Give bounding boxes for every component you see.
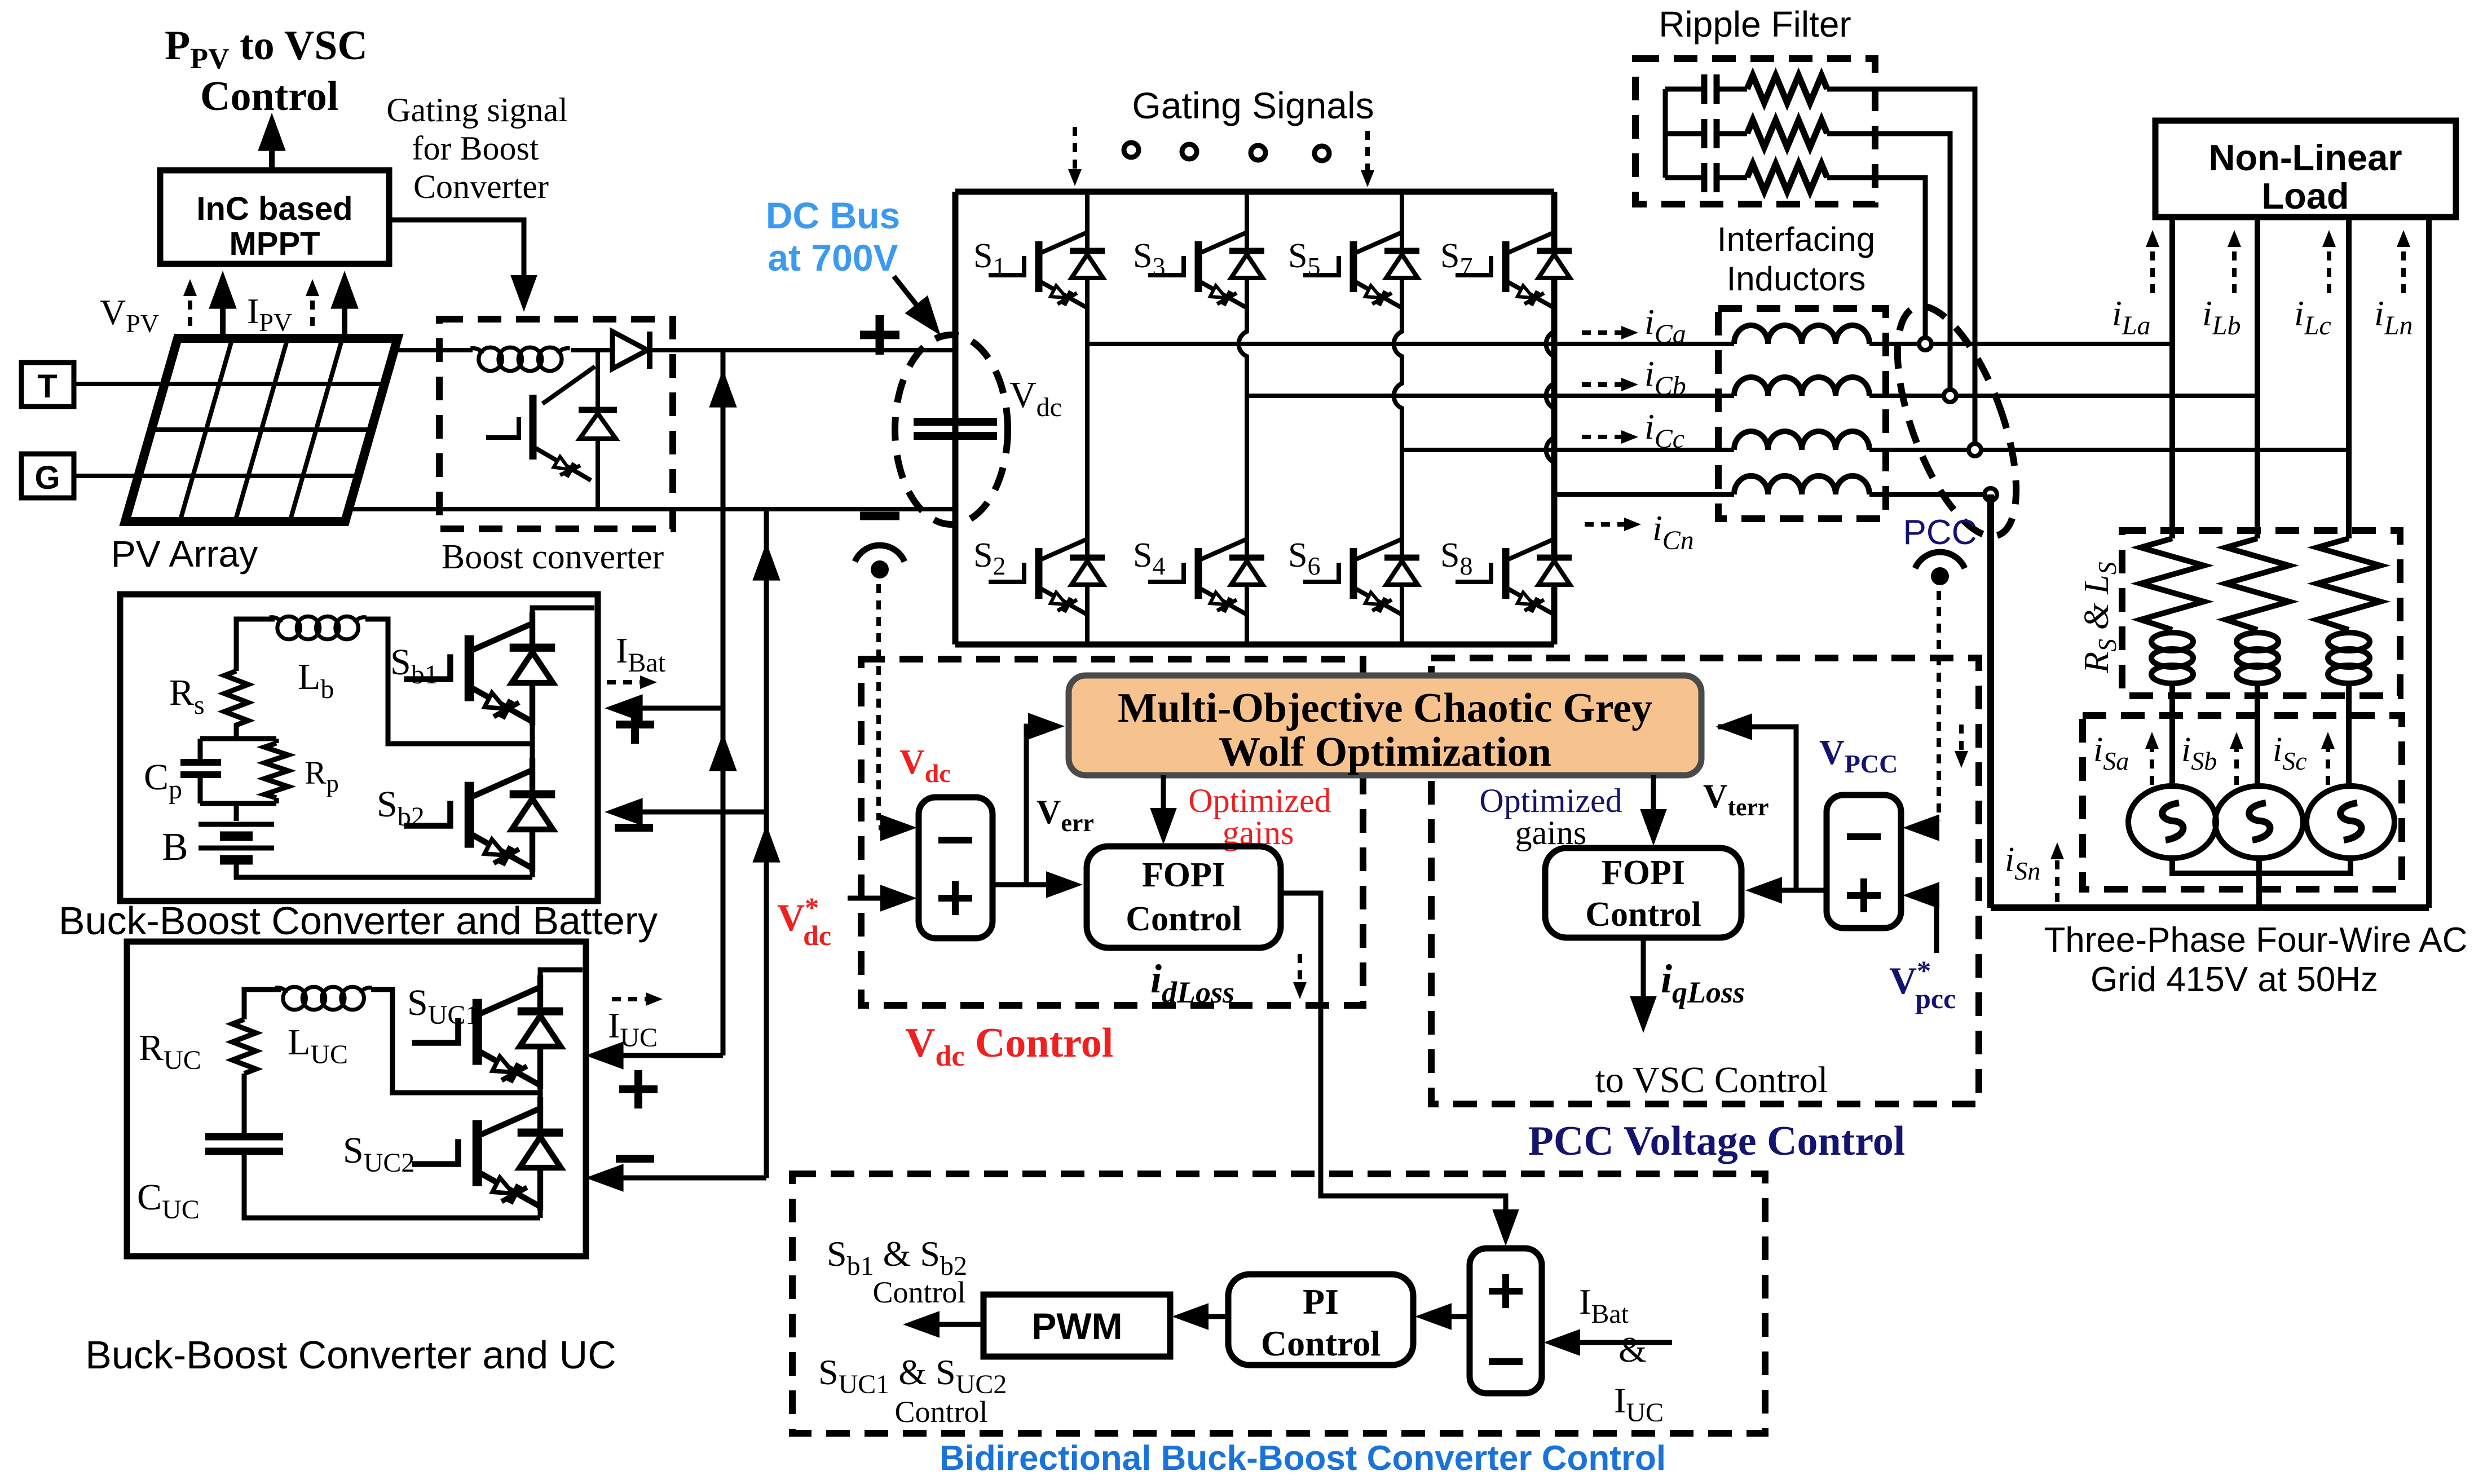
box: Rs Ls dashed	[2122, 531, 2400, 696]
box: bidirectional buck-boost control dashed	[792, 1174, 1765, 1433]
arrow: DC bus pointer	[894, 276, 930, 323]
wire: phase a output	[1087, 342, 1734, 346]
wire: phase b to load	[1869, 394, 2257, 398]
ellipse: PCC dashed	[1873, 292, 2040, 551]
wire: filter left bus	[1663, 89, 1668, 178]
wire: UC plus line	[595, 1053, 723, 1058]
arrow: VPCC into sum2 minus	[1916, 825, 1939, 831]
transistor: S_UC1	[538, 1089, 543, 1097]
svg-text:RS & LS: RS & LS	[2078, 562, 2122, 674]
svg-text:PI: PI	[1303, 1282, 1339, 1322]
wire: T to array	[74, 382, 165, 386]
inductor: phase a	[1734, 325, 1869, 344]
arrow: FOPI2 output iqLoss down	[1641, 938, 1646, 1021]
leg: VSC leg1	[1085, 192, 1090, 644]
inductor: L_b	[270, 616, 367, 639]
svg-text:InC based: InC based	[196, 191, 352, 227]
svg-text:FOPI: FOPI	[1602, 854, 1685, 892]
transistor: S5	[1303, 223, 1419, 311]
resistor: filter row2 R	[1747, 120, 1827, 147]
wire: grid neutral left leg	[1987, 494, 1994, 908]
label: plus UC	[619, 1070, 658, 1108]
svg-text:MPPT: MPPT	[229, 226, 320, 262]
svg-text:PCC Voltage Control: PCC Voltage Control	[1528, 1118, 1906, 1164]
svg-text:Converter: Converter	[413, 168, 549, 205]
arrow: Vdc into sum1 minus	[879, 825, 902, 831]
resistor: grid Rs phase a	[2141, 538, 2204, 630]
box: PCC voltage control dashed	[1431, 658, 1979, 1104]
box: interfacing inductors dashed	[1718, 308, 1886, 519]
wire: coil to diode	[571, 348, 612, 352]
svg-text:Gating signal: Gating signal	[386, 91, 568, 129]
capacitor: filter row1 C	[1665, 87, 1704, 92]
wire: MPPT output arrow up	[269, 124, 275, 170]
arrow: V_PV solid	[220, 282, 226, 338]
svg-text:&: &	[1618, 1330, 1647, 1370]
wire: source leads	[2172, 716, 2349, 786]
source: AC phase c	[2306, 786, 2394, 858]
wire: PV to boost inductor	[395, 348, 473, 352]
svg-text:Three-Phase Four-Wire AC: Three-Phase Four-Wire AC	[2044, 921, 2467, 960]
battery: B	[199, 824, 274, 848]
wire: phase n to PCC	[1869, 492, 1991, 497]
box: Boost converter dashed	[439, 319, 673, 529]
transistor: S3	[1148, 223, 1264, 311]
capacitor: C_p	[180, 762, 221, 775]
block: InC based MPPT	[160, 170, 389, 264]
wire: Luc to switch node	[371, 990, 540, 1093]
arrow: I_PV solid	[342, 282, 347, 338]
svg-text:Control: Control	[1261, 1323, 1381, 1363]
arrow: V*dc into sum1 plus	[848, 896, 902, 901]
wire: V_PCC dashed down	[1937, 591, 1941, 820]
svg-text:PWM: PWM	[1031, 1305, 1122, 1347]
arrow: sum2 output into FOPI2	[1759, 888, 1796, 893]
wire: FOPI1 output down to BBCC	[1281, 893, 1506, 1234]
wire: filter row1 to phase c	[1827, 89, 1975, 451]
transistor: S_UC2	[538, 1210, 543, 1218]
arrow: Verr into FOPI1	[1026, 882, 1068, 887]
svg-text:G: G	[34, 460, 60, 496]
wire: V*pcc into sum2 plus	[1916, 895, 1937, 953]
wire: Sb1 collector to box edge	[532, 608, 594, 612]
inductor: L_UC	[275, 987, 372, 1010]
svg-text:Control: Control	[1126, 900, 1242, 938]
label: plus battery	[616, 705, 654, 744]
svg-text:PV Array: PV Array	[111, 533, 258, 575]
wire: UC minus line	[595, 1176, 766, 1181]
wire: battery minus line	[615, 810, 766, 815]
wire: sum2 output to Vterr branch	[1718, 727, 1827, 890]
transistor: boost IGBT	[486, 350, 617, 509]
leg: VSC leg4 with hops	[1546, 192, 1554, 644]
arrow: I_PV dashed	[310, 288, 315, 326]
wire: phase c output	[1402, 448, 1734, 452]
inductor: boost L	[470, 347, 570, 371]
wire: filter row3 to phase a	[1827, 178, 1925, 344]
wire: sum1 output to Verr branch	[993, 726, 1050, 885]
node: PCC n	[1984, 488, 1997, 501]
wire: Lb to switch node	[365, 619, 532, 744]
box: Vdc control dashed	[861, 659, 1363, 1005]
node: gating dots	[1124, 143, 1139, 157]
transistor: S6	[1303, 530, 1419, 617]
leg: VSC leg2 with hop	[1239, 192, 1247, 644]
svg-text:Control: Control	[1585, 895, 1701, 934]
wire: Cp Rp parallel rails	[200, 739, 276, 821]
block: sum2	[1827, 795, 1901, 928]
svg-text:Control: Control	[200, 73, 338, 120]
arrow: V_PV dashed	[188, 288, 192, 326]
svg-text:Inductors: Inductors	[1727, 260, 1866, 298]
resistor: R_UC	[232, 1019, 256, 1074]
svg-text:Buck-Boost Converter and Batte: Buck-Boost Converter and Battery	[59, 899, 658, 943]
resistor: grid Rs phase b	[2226, 538, 2289, 630]
wire: filter row2 to phase b	[1827, 134, 1950, 396]
svg-text:PCC: PCC	[1903, 513, 1977, 552]
arrow: PWM output	[916, 1322, 984, 1327]
wire: phase n output	[1554, 492, 1734, 497]
arrow: GWO to FOPI1 optimized gains	[1161, 775, 1166, 832]
node: PCC c	[1969, 444, 1981, 456]
block: T input	[21, 363, 74, 407]
capacitor: DC link Vdc	[914, 422, 997, 436]
wire: load phase b	[2255, 217, 2260, 538]
transistor: S8	[1456, 530, 1572, 617]
svg-text:Bidirectional Buck-Boost Conve: Bidirectional Buck-Boost Converter Contr…	[940, 1439, 1666, 1478]
inductor: grid Ls phase a	[2169, 630, 2175, 716]
label: minus sign DC bus	[860, 512, 899, 520]
transistor: S7	[1456, 223, 1572, 311]
resistor: grid Rs phase c	[2317, 538, 2380, 630]
svg-text:Ripple Filter: Ripple Filter	[1659, 4, 1851, 45]
svg-text:B: B	[162, 825, 188, 869]
wire: battery top left	[236, 619, 275, 671]
wire: load phase a	[2169, 217, 2175, 538]
wire: phase c to load	[1869, 448, 2349, 452]
inductor: grid Ls phase b	[2255, 630, 2260, 716]
svg-text:DC Bus: DC Bus	[766, 195, 900, 236]
resistor: R_s	[224, 671, 248, 739]
source: AC phase a	[2128, 786, 2216, 858]
arrow: idLoss dashed	[1298, 954, 1302, 990]
transistor: S_b2	[530, 872, 535, 877]
node: PCC b	[1944, 390, 1956, 402]
svg-text:Control: Control	[872, 1275, 965, 1309]
inductor: phase c	[1734, 431, 1869, 450]
block: sum3	[1470, 1248, 1542, 1393]
sensor: Vdc measurement	[855, 545, 905, 578]
block: Non-Linear Load	[2155, 121, 2456, 217]
arrow: GWO to FOPI2 optimized gains	[1651, 775, 1656, 833]
transistor: S4	[1148, 530, 1264, 617]
wire: UC bottom	[244, 1151, 540, 1218]
diode: boost D	[612, 332, 650, 369]
ellipse: DC bus dashed	[895, 335, 1008, 524]
transistor: S_b1	[530, 725, 535, 758]
wire: phase b output	[1247, 394, 1734, 398]
transistor: S1	[989, 223, 1105, 311]
wire: G to array	[74, 474, 138, 478]
block: FOPI control 2	[1545, 848, 1741, 938]
wire: load phase c	[2346, 217, 2352, 538]
svg-text:at 700V: at 700V	[768, 237, 898, 279]
svg-text:Control: Control	[894, 1395, 987, 1429]
wire: PV bottom to VSC - rail	[351, 507, 955, 511]
svg-text:for Boost: for Boost	[412, 130, 539, 167]
resistor: filter row3 R	[1747, 164, 1827, 191]
wire: battery plus line	[615, 706, 723, 711]
box: ripple filter dashed	[1635, 59, 1875, 204]
wire: grid bottom rail	[1991, 904, 2429, 911]
wire: column B battery minus to DC minus	[764, 509, 769, 1178]
capacitor: filter row3 C	[1665, 175, 1704, 180]
box: UC converter	[127, 942, 586, 1256]
arrow: IBat IUC into sum3	[1556, 1340, 1672, 1345]
wire: Vdc dashed down	[876, 584, 881, 820]
svg-text:T: T	[37, 368, 57, 405]
label: plus sign DC bus	[860, 315, 899, 355]
block: GWO optimizer	[1069, 675, 1701, 775]
block: G input	[21, 454, 74, 498]
svg-text:Grid 415V at 50Hz: Grid 415V at 50Hz	[2091, 960, 2378, 999]
wire: SUC1 collector to box edge	[540, 970, 583, 975]
box: battery converter	[120, 594, 598, 901]
arrow: sum3 to PI control	[1428, 1314, 1470, 1319]
svg-text:Gating Signals: Gating Signals	[1132, 85, 1374, 126]
node: PCC a	[1919, 338, 1931, 350]
box: VSC bridge	[955, 192, 1554, 644]
arrow: PI to PWM	[1185, 1314, 1228, 1319]
svg-text:Load: Load	[2261, 175, 2349, 217]
block: sum1	[919, 797, 993, 938]
svg-text:Interfacing: Interfacing	[1717, 220, 1875, 258]
wire: source neutral joining	[2172, 858, 2350, 908]
capacitor: filter row2 C	[1665, 131, 1704, 136]
block: FOPI control 1	[1087, 846, 1281, 948]
svg-text:Non-Linear: Non-Linear	[2208, 137, 2402, 178]
svg-text:Multi-Objective Chaotic Grey: Multi-Objective Chaotic Grey	[1118, 685, 1652, 731]
svg-text:Boost converter: Boost converter	[442, 538, 664, 576]
svg-text:FOPI: FOPI	[1142, 856, 1225, 894]
source: AC phase b	[2215, 786, 2303, 858]
arrow: gating dashed left	[1073, 127, 1077, 175]
resistor: filter row1 R	[1747, 76, 1827, 103]
block: PI control	[1228, 1274, 1413, 1365]
wire: MPPT to boost gating	[389, 220, 524, 302]
transistor: S2	[989, 530, 1105, 617]
box: grid sources dashed	[2083, 715, 2402, 889]
svg-text:Wolf Optimization: Wolf Optimization	[1219, 729, 1551, 775]
inductor: phase b	[1734, 377, 1869, 396]
resistor: R_p	[264, 743, 288, 798]
wire: Ruc to Cuc	[242, 1074, 247, 1137]
arrow: VPCC short dashed	[1959, 725, 1964, 758]
wire: battery bottom	[236, 862, 532, 877]
component: PV array panel	[125, 338, 398, 522]
leg: VSC leg3 with hops	[1394, 192, 1402, 644]
wire: column A battery plus to DC plus	[721, 350, 726, 1055]
wire: diode to VSC + rail	[650, 348, 955, 352]
wire: UC top left	[244, 990, 281, 1019]
svg-text:to VSC Control: to VSC Control	[1595, 1059, 1828, 1101]
label: minus battery	[615, 824, 653, 832]
inductor: phase n	[1734, 476, 1869, 494]
label: minus UC	[616, 1155, 654, 1163]
arrow: gating dashed right	[1365, 131, 1370, 176]
capacitor: C_UC	[205, 1137, 283, 1151]
sensor: PCC measurement	[1915, 552, 1965, 585]
svg-text:Buck-Boost Converter and UC: Buck-Boost Converter and UC	[85, 1333, 616, 1377]
wire: load neutral	[2426, 217, 2432, 908]
inductor: grid Ls phase c	[2346, 630, 2352, 716]
wire: phase a to load	[1869, 342, 2172, 346]
block: PWM	[984, 1295, 1170, 1357]
